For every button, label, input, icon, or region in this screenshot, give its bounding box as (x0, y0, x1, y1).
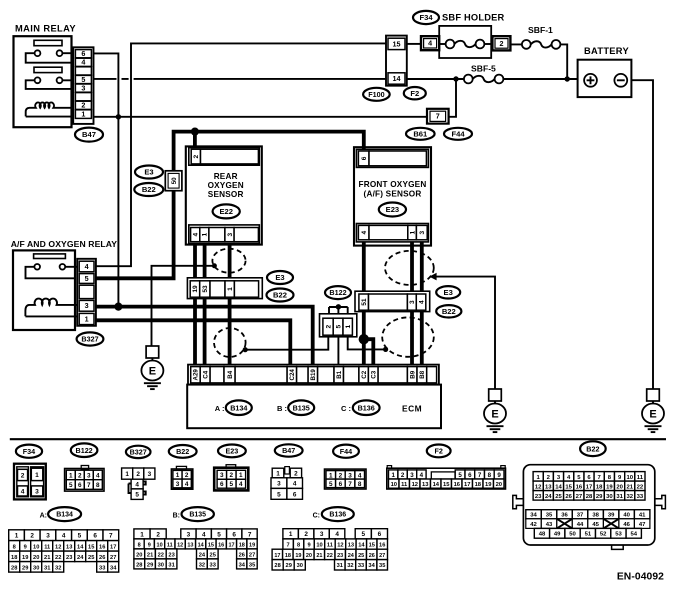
wire: B122 pin5 to ECM B1 (337, 337, 339, 366)
svg-text:F100: F100 (368, 90, 384, 99)
svg-text:B4: B4 (227, 370, 234, 378)
svg-text:52: 52 (600, 532, 607, 538)
svg-text:E: E (149, 365, 156, 377)
pinout oval B134 (48, 507, 81, 521)
fuse SBF-1 (522, 25, 561, 49)
svg-text:8: 8 (488, 472, 492, 479)
svg-text:4: 4 (358, 472, 362, 479)
svg-text:B61: B61 (413, 129, 428, 138)
svg-text:23: 23 (168, 552, 174, 558)
svg-text:4: 4 (335, 531, 339, 538)
battery (578, 46, 632, 97)
svg-text:3: 3 (348, 472, 352, 479)
svg-text:32: 32 (347, 563, 353, 569)
pinout F2 connector (387, 466, 506, 489)
svg-text:5: 5 (135, 492, 139, 499)
svg-text:32: 32 (199, 562, 205, 568)
svg-text:REAR: REAR (214, 172, 238, 181)
svg-text:5: 5 (277, 491, 281, 498)
svg-text:14: 14 (555, 484, 562, 490)
joint connector 7 (B61/F44) (427, 109, 449, 124)
svg-text:8: 8 (96, 482, 100, 489)
svg-text:8: 8 (13, 544, 16, 550)
front sensor title + E23 (359, 180, 427, 199)
junction: pin1/pin6 node (116, 114, 121, 119)
svg-text:21: 21 (44, 555, 50, 561)
svg-text:24: 24 (348, 553, 355, 559)
svg-text:(A/F) SENSOR: (A/F) SENSOR (364, 190, 422, 199)
svg-text:17: 17 (586, 484, 593, 490)
svg-text:1: 1 (85, 314, 89, 323)
svg-text:27: 27 (576, 494, 583, 500)
wire: rear shield to B122 pin2 (245, 337, 328, 350)
svg-text:B22: B22 (273, 291, 287, 300)
wire: row pin3 to ECM B9 (410, 312, 414, 366)
svg-text:B22: B22 (586, 444, 599, 453)
svg-text:29: 29 (596, 494, 603, 500)
rear sensor title + E22 (208, 172, 244, 199)
wire: pin1 to ECM B4 (228, 299, 232, 366)
svg-text:45: 45 (592, 522, 599, 528)
ground E (left, sensor shield) (141, 346, 163, 389)
svg-text:50: 50 (171, 177, 178, 184)
connector label B47 (75, 128, 103, 142)
wire: pin19 to ECM A29 (193, 299, 197, 366)
rear oxygen sensor E22 box (186, 146, 262, 244)
svg-text:25: 25 (555, 494, 562, 500)
svg-text:16: 16 (99, 544, 105, 550)
junction: battery + node (565, 76, 570, 81)
svg-text:49: 49 (554, 532, 561, 538)
pinout label C: B136 (313, 513, 320, 520)
svg-text:6: 6 (93, 533, 97, 540)
svg-text:38: 38 (592, 513, 599, 519)
SBF holder pin 4 (421, 36, 439, 50)
svg-text:3: 3 (187, 531, 191, 538)
svg-text:24: 24 (199, 552, 206, 558)
pinout label E23 (218, 445, 246, 458)
connector label B61 (406, 128, 435, 140)
svg-text:29: 29 (286, 563, 292, 569)
svg-text:24: 24 (77, 555, 84, 561)
svg-text:F44: F44 (451, 129, 465, 138)
svg-text:3: 3 (220, 472, 224, 479)
svg-text:3: 3 (148, 471, 152, 478)
pinout label F2 (427, 445, 451, 458)
wire: SBF holder pin2 to SBF-1 to battery node (510, 44, 567, 79)
svg-text:3: 3 (46, 533, 50, 540)
svg-text:3: 3 (87, 472, 91, 479)
svg-text:4: 4 (420, 472, 424, 479)
svg-text:26: 26 (239, 552, 245, 558)
svg-text:51: 51 (361, 298, 368, 306)
svg-text:11: 11 (167, 542, 173, 548)
svg-text:18: 18 (475, 482, 482, 488)
thick wire: A/F relay pin3 to ECM B19 (96, 307, 313, 366)
svg-text:4: 4 (185, 481, 189, 488)
pinout E23 connector (214, 465, 248, 491)
svg-text:15: 15 (208, 542, 214, 548)
svg-text:12: 12 (412, 482, 418, 488)
svg-text:19: 19 (192, 285, 199, 293)
connector 50 (E3/B22) on power wire (165, 171, 182, 191)
pinout label F34 (16, 445, 42, 458)
svg-text:29: 29 (147, 562, 153, 568)
pinout B47 connector (271, 467, 303, 500)
svg-text:14: 14 (433, 482, 440, 488)
svg-text:B :: B : (277, 404, 287, 413)
svg-text:5: 5 (362, 531, 366, 538)
pinout label B22 (169, 445, 197, 458)
svg-text:16: 16 (218, 542, 224, 548)
connector label F34 (top) (413, 11, 439, 24)
svg-text:30: 30 (158, 562, 164, 568)
svg-text:17: 17 (110, 544, 116, 550)
junction: SBF-5 left node (453, 76, 458, 81)
svg-text:B135: B135 (293, 403, 310, 412)
ECM pin row (188, 365, 439, 385)
svg-text:33: 33 (99, 565, 105, 571)
connector label B22 (conn 50) (134, 183, 163, 196)
svg-text:1: 1 (202, 232, 209, 236)
svg-text:A:: A: (40, 513, 47, 520)
svg-text:4: 4 (96, 472, 100, 479)
svg-text:OXYGEN: OXYGEN (208, 181, 244, 190)
svg-text:21: 21 (147, 552, 153, 558)
svg-text:17: 17 (228, 542, 234, 548)
connector label E22 (213, 204, 240, 218)
svg-text:ECM: ECM (402, 403, 422, 413)
svg-text:EN-04092: EN-04092 (617, 572, 664, 583)
svg-text:4: 4 (193, 232, 200, 236)
wire: F100 pin14 to battery + through SBF-5 (407, 78, 578, 80)
pinout B22 connector (171, 466, 192, 489)
main relay contact bar 2 (34, 67, 62, 72)
connector label F2 (top) (404, 87, 426, 99)
svg-text:SBF HOLDER: SBF HOLDER (442, 13, 505, 23)
svg-text:32: 32 (55, 565, 61, 571)
rear sensor bottom connector row pins 4/1/3 (189, 225, 259, 244)
main relay title (15, 24, 76, 34)
wire: SBF-5 junction down to connector 7 (449, 79, 456, 117)
svg-text:2: 2 (339, 472, 343, 479)
main relay box (14, 36, 72, 127)
connector label B135 (ECM) (288, 400, 314, 415)
svg-text:4: 4 (239, 481, 243, 488)
connector label B136 (ECM) (353, 400, 380, 415)
wire: rear pin3 to B22 pin1 (228, 244, 232, 279)
svg-text:6: 6 (378, 531, 382, 538)
svg-text:14: 14 (77, 544, 84, 550)
svg-text:FRONT OXYGEN: FRONT OXYGEN (359, 180, 427, 189)
svg-text:9: 9 (24, 544, 27, 550)
wire: rear pin4 to B22 pin19 (193, 244, 197, 279)
svg-text:28: 28 (136, 562, 142, 568)
figure number EN-04092 (617, 572, 664, 583)
svg-text:6: 6 (468, 472, 472, 479)
svg-text:13: 13 (545, 484, 552, 490)
svg-text:C2: C2 (361, 370, 368, 378)
svg-text:1: 1 (276, 470, 280, 477)
svg-text:F34: F34 (23, 447, 35, 456)
wire: battery minus to ground E right (631, 80, 653, 389)
wire: F100 pin15 to A/F relay pin4 via left vertical (96, 43, 386, 266)
svg-text:24: 24 (545, 494, 552, 500)
svg-text:17: 17 (274, 553, 280, 559)
connector label F44 (top) (444, 128, 472, 140)
svg-text:3: 3 (81, 84, 85, 93)
B122 joint connector bus and dot (329, 304, 348, 314)
svg-text:27: 27 (249, 552, 255, 558)
svg-text:10: 10 (391, 482, 397, 488)
connector F100 pins 15/14 (386, 36, 407, 86)
pinout label A: B134 (40, 513, 47, 520)
svg-text:2: 2 (81, 101, 85, 110)
pinout B136 grid (272, 529, 387, 570)
svg-text:10: 10 (157, 542, 163, 548)
svg-text:54: 54 (631, 532, 638, 538)
svg-text:4: 4 (361, 230, 368, 234)
svg-text:33: 33 (358, 563, 364, 569)
svg-text:1: 1 (391, 472, 395, 479)
svg-text:9: 9 (497, 472, 501, 479)
pinout B22 large connector (513, 465, 666, 550)
svg-text:28: 28 (586, 494, 593, 500)
svg-text:MAIN RELAY: MAIN RELAY (15, 24, 76, 34)
front sensor bottom connector row pins 4/1/3 (356, 224, 428, 242)
svg-text:4: 4 (418, 300, 425, 304)
connector label F100 (363, 88, 390, 101)
svg-text:B19: B19 (310, 369, 317, 381)
svg-text:2: 2 (136, 471, 140, 478)
svg-text:B136: B136 (329, 512, 346, 519)
svg-text:4: 4 (62, 533, 66, 540)
svg-text:E3: E3 (144, 168, 153, 177)
svg-text:18: 18 (239, 542, 245, 548)
A/F relay switch (pins 4-5) (26, 264, 78, 278)
svg-text:E22: E22 (219, 207, 233, 216)
svg-text:A/F AND OXYGEN RELAY: A/F AND OXYGEN RELAY (11, 239, 118, 249)
svg-text:3: 3 (176, 481, 180, 488)
svg-text:5: 5 (329, 481, 333, 488)
svg-text:19: 19 (606, 484, 613, 490)
svg-text:7: 7 (248, 531, 252, 538)
svg-text:B135: B135 (189, 512, 206, 519)
svg-text:2: 2 (185, 472, 189, 479)
A/F and oxygen relay title (11, 239, 118, 249)
svg-text:8: 8 (297, 542, 300, 548)
svg-text:10: 10 (33, 544, 39, 550)
front oxygen (A/F) sensor E23 box (354, 147, 431, 245)
svg-text:46: 46 (623, 522, 630, 528)
svg-text:41: 41 (639, 513, 646, 519)
svg-text:19: 19 (22, 555, 28, 561)
svg-text:1: 1 (35, 472, 39, 479)
svg-text:2: 2 (156, 531, 160, 538)
svg-text:6: 6 (78, 482, 82, 489)
svg-text:2: 2 (30, 533, 34, 540)
svg-text:2: 2 (304, 531, 308, 538)
svg-text:SENSOR: SENSOR (208, 190, 244, 199)
svg-text:1: 1 (15, 533, 19, 540)
svg-text:29: 29 (22, 565, 28, 571)
svg-text:43: 43 (546, 522, 553, 528)
svg-text:1: 1 (239, 472, 243, 479)
svg-text:1: 1 (69, 472, 73, 479)
svg-text:B47: B47 (282, 446, 295, 455)
svg-text:11: 11 (327, 542, 333, 548)
pinout B327 connector (122, 468, 155, 499)
svg-text:8: 8 (138, 542, 141, 548)
svg-text:B8: B8 (419, 370, 426, 378)
ECM box (187, 385, 441, 429)
svg-text:4: 4 (135, 481, 139, 488)
svg-text:44: 44 (577, 522, 584, 528)
svg-text:28: 28 (11, 565, 17, 571)
svg-text:B134: B134 (56, 512, 73, 519)
wire: front pin3 down (420, 242, 424, 295)
svg-text:1: 1 (329, 472, 333, 479)
svg-text:6: 6 (293, 491, 297, 498)
divider line (10, 438, 666, 440)
svg-text:25: 25 (88, 555, 94, 561)
svg-text:23: 23 (66, 555, 72, 561)
pinout label B22 (large) (580, 441, 606, 456)
svg-text:4: 4 (85, 262, 89, 271)
svg-text:C3: C3 (371, 370, 378, 378)
pinout label B122 (71, 443, 98, 457)
svg-text:18: 18 (11, 555, 17, 561)
wire: pin51 to ECM C2 with branch to C3 (359, 310, 374, 365)
main relay connector strip B47 pins 6/4/5/3/2/1 (73, 47, 93, 124)
svg-text:B1: B1 (336, 370, 343, 378)
svg-text:37: 37 (577, 513, 584, 519)
svg-text:20: 20 (496, 482, 502, 488)
svg-text:9: 9 (308, 542, 311, 548)
svg-text:33: 33 (637, 494, 644, 500)
svg-text:28: 28 (274, 563, 280, 569)
svg-text:E23: E23 (386, 205, 400, 214)
svg-text:23: 23 (337, 553, 343, 559)
svg-text:13: 13 (422, 482, 429, 488)
svg-text:27: 27 (379, 553, 385, 559)
svg-text:SBF-5: SBF-5 (471, 64, 496, 74)
svg-text:20: 20 (616, 484, 623, 490)
svg-text:3: 3 (277, 481, 281, 488)
svg-text:16: 16 (379, 542, 385, 548)
svg-text:32: 32 (627, 494, 634, 500)
svg-text:C:: C: (313, 513, 320, 520)
svg-text:48: 48 (539, 532, 546, 538)
svg-text:15: 15 (88, 544, 94, 550)
svg-text:34: 34 (368, 563, 375, 569)
wire: row pin4 to ECM B8 (420, 312, 424, 366)
svg-text:1: 1 (176, 472, 180, 479)
front sensor top connector row, pin 6 (356, 149, 428, 167)
svg-text:3: 3 (419, 230, 426, 234)
A/F relay box (13, 250, 75, 330)
svg-text:18: 18 (596, 484, 603, 490)
svg-text:6: 6 (220, 481, 224, 488)
pinout B122 connector (65, 466, 104, 492)
svg-text:3: 3 (409, 300, 416, 304)
svg-text:1: 1 (140, 531, 144, 538)
connector label B122 (mid) (325, 286, 351, 299)
shield: rear sensor upper (dashed) (212, 249, 246, 273)
svg-text:2: 2 (21, 472, 25, 479)
svg-text:6: 6 (232, 531, 236, 538)
svg-text:3: 3 (85, 301, 89, 310)
svg-text:3: 3 (410, 472, 414, 479)
svg-text:20: 20 (136, 552, 142, 558)
svg-text:2: 2 (500, 39, 504, 48)
pinout label F44 (333, 445, 359, 458)
svg-text:51: 51 (585, 532, 592, 538)
svg-text:B22: B22 (176, 447, 189, 456)
svg-text:34: 34 (530, 513, 537, 519)
rear sensor top connector row, pin 2 (189, 148, 259, 166)
svg-text:33: 33 (210, 562, 216, 568)
pinout oval B135 (182, 507, 214, 521)
wire: F100 pin15 to SBF holder pin4 (407, 43, 421, 45)
svg-text:15: 15 (565, 484, 572, 490)
svg-text:53: 53 (202, 285, 209, 293)
svg-text:39: 39 (608, 513, 615, 519)
svg-text:E23: E23 (226, 447, 239, 456)
connector row E3/B22 pins 51/3/4 (355, 291, 430, 311)
pinout oval B136 (322, 507, 354, 521)
svg-text:26: 26 (369, 553, 375, 559)
svg-text:2: 2 (325, 325, 332, 329)
A/F relay coil (pins 3-1) (25, 299, 77, 317)
svg-text:6: 6 (339, 481, 343, 488)
svg-text:21: 21 (316, 553, 322, 559)
svg-text:30: 30 (297, 563, 303, 569)
svg-text:47: 47 (639, 522, 646, 528)
svg-text:4: 4 (202, 531, 206, 538)
svg-text:35: 35 (249, 562, 255, 568)
svg-text:12: 12 (55, 544, 61, 550)
svg-text:2: 2 (78, 472, 82, 479)
SBF holder box (439, 26, 491, 58)
svg-text:15: 15 (369, 542, 375, 548)
svg-text:31: 31 (44, 565, 50, 571)
svg-text:14: 14 (393, 74, 401, 83)
main relay contact bar 1 (34, 40, 62, 45)
svg-text:2: 2 (193, 154, 200, 158)
svg-text:B327: B327 (130, 448, 147, 457)
svg-text:16: 16 (576, 484, 583, 490)
svg-text:35: 35 (546, 513, 553, 519)
svg-text:50: 50 (569, 532, 576, 538)
pinout F44 connector (325, 469, 367, 489)
svg-text:F2: F2 (435, 447, 443, 456)
svg-text:B:: B: (173, 513, 180, 520)
svg-text:22: 22 (637, 484, 644, 490)
main relay coil (pins 2-1) (26, 102, 74, 116)
svg-text:12: 12 (535, 484, 542, 490)
SBF holder title (442, 13, 505, 23)
svg-text:20: 20 (306, 553, 312, 559)
wire: front pin4 down to connector pin51 (362, 242, 366, 292)
svg-text:11: 11 (401, 482, 408, 488)
svg-text:A :: A : (215, 404, 225, 413)
svg-text:18: 18 (285, 553, 291, 559)
svg-text:22: 22 (55, 555, 61, 561)
svg-text:4: 4 (21, 488, 25, 495)
svg-text:3: 3 (35, 488, 39, 495)
svg-text:C4: C4 (202, 370, 209, 378)
